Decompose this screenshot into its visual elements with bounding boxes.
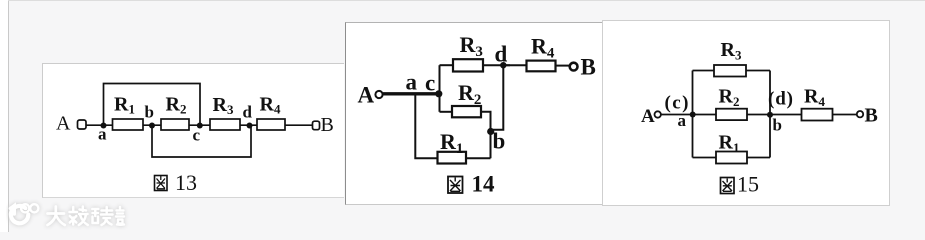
wire c to R2 (440, 111, 453, 113)
svg-text:14: 14 (472, 172, 496, 197)
wire R1 to R2 (143, 124, 161, 126)
svg-text:c: c (425, 71, 435, 96)
terminal B circle (313, 121, 320, 130)
node b dot (487, 128, 494, 135)
svg-text:d: d (243, 103, 253, 122)
wire A to R1 (86, 124, 113, 126)
wire d down then left to b (491, 65, 504, 130)
node c dot (435, 90, 442, 97)
R3 branch wires (693, 70, 715, 72)
watermark logo and text (6, 198, 136, 230)
svg-text:A: A (56, 113, 71, 135)
watermark char kua (92, 207, 112, 225)
resistor R2 box (161, 119, 189, 130)
right rail (769, 71, 771, 158)
svg-text:R1: R1 (719, 132, 740, 156)
svg-text:A: A (641, 106, 655, 127)
watermark char da (48, 207, 65, 226)
caption icon "tu" glyph (448, 177, 463, 194)
svg-text:R1: R1 (440, 129, 463, 157)
panel 1 white card (42, 63, 344, 198)
resistor R3 box (453, 59, 483, 71)
top bridge wire a-c (104, 84, 201, 126)
svg-text:a: a (678, 111, 687, 130)
svg-text:R3: R3 (721, 39, 742, 63)
wire R2 right then down to b (481, 112, 491, 159)
wire R4 to B (556, 65, 570, 67)
svg-text:B: B (865, 105, 878, 127)
resistor R4 box (802, 109, 833, 121)
svg-text:c: c (193, 126, 201, 145)
top border line (8, 0, 925, 1)
bottom bridge wire b-d (152, 126, 251, 158)
wire R4 to B (833, 114, 857, 116)
svg-text:R4: R4 (260, 94, 281, 117)
vertical wire at node c (439, 65, 441, 112)
node d dot (247, 123, 253, 129)
svg-text:R2: R2 (719, 86, 740, 110)
resistor R3 box (714, 65, 746, 77)
svg-text:(d): (d) (768, 89, 793, 110)
svg-text:R3: R3 (460, 32, 483, 60)
svg-text:13: 13 (175, 170, 197, 195)
node a dot (690, 112, 696, 118)
resistor R4 box (257, 119, 285, 130)
node b dot (767, 112, 773, 118)
left white gutter (0, 0, 8, 232)
left vertical border line (8, 0, 9, 232)
terminal B circle (570, 63, 578, 71)
svg-text:b: b (145, 103, 154, 122)
panel 3 white card (602, 20, 890, 206)
R2 branch wires (693, 114, 717, 116)
left rail (692, 71, 694, 158)
resistor R4 box (527, 61, 556, 72)
svg-text:a: a (98, 125, 107, 144)
svg-text:R3: R3 (213, 94, 234, 117)
wire b to R4 (770, 114, 802, 116)
node b dot (149, 123, 155, 129)
terminal A circle (375, 91, 382, 98)
wire R3 to d (483, 64, 510, 66)
terminal A circle (78, 120, 87, 129)
wire R4 to B (285, 124, 312, 126)
wire R1 to b rail (466, 157, 491, 159)
logo numeral 1 stroke (11, 206, 15, 214)
wire R2 to R3 (189, 124, 210, 126)
svg-text:B: B (321, 114, 334, 136)
svg-text:R2: R2 (458, 80, 481, 108)
watermark char jing (116, 207, 124, 225)
svg-text:d: d (495, 42, 508, 67)
svg-text:B: B (581, 55, 596, 80)
wire d to R4 (503, 64, 526, 66)
svg-text:b: b (493, 129, 506, 154)
terminal B circle (857, 111, 863, 117)
wire c to R3 (440, 64, 454, 66)
resistor R1 box (113, 119, 144, 130)
resistor R2 box (452, 106, 481, 117)
watermark char shu (70, 207, 88, 226)
panel 2 white card (345, 22, 602, 205)
svg-text:15: 15 (737, 172, 759, 197)
caption icon "tu" glyph (155, 176, 168, 191)
resistor R1 box (716, 152, 747, 164)
node c dot (197, 123, 203, 129)
main wire A to c (383, 92, 440, 95)
terminal A circle (655, 111, 661, 117)
node d dot (500, 62, 506, 68)
resistor R2 box (716, 109, 747, 120)
resistor R1 box (438, 152, 467, 164)
wire A to a (661, 114, 693, 116)
node a dot (101, 123, 107, 129)
logo big C arc (11, 206, 28, 223)
resistor R3 box (210, 119, 240, 130)
svg-text:a: a (406, 70, 418, 95)
svg-text:b: b (773, 116, 782, 135)
R1 branch wires (693, 157, 717, 159)
left rail wire a down (415, 95, 437, 158)
svg-text:R4: R4 (531, 34, 555, 62)
caption icon "tu" glyph (721, 178, 735, 194)
logo oo rings (21, 204, 29, 212)
svg-text:R4: R4 (804, 86, 825, 110)
svg-text:R1: R1 (114, 94, 135, 117)
svg-text:R2: R2 (166, 94, 187, 117)
svg-text:A: A (358, 83, 375, 108)
wire R3 to R4 (240, 124, 257, 126)
